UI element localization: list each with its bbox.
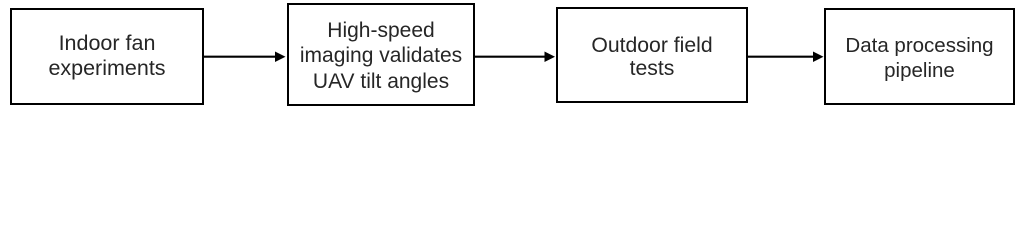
box 3: Outdoor field tests xyxy=(556,7,748,103)
arrow 2 xyxy=(475,56,546,58)
arrow 3 xyxy=(748,56,815,58)
box 2: High-speed imaging validates UAV tilt angles xyxy=(287,3,475,106)
box 4: Data processing pipeline xyxy=(824,8,1015,105)
box 1: Indoor fan experiments xyxy=(10,8,204,105)
arrow 1 xyxy=(0,0,1024,113)
